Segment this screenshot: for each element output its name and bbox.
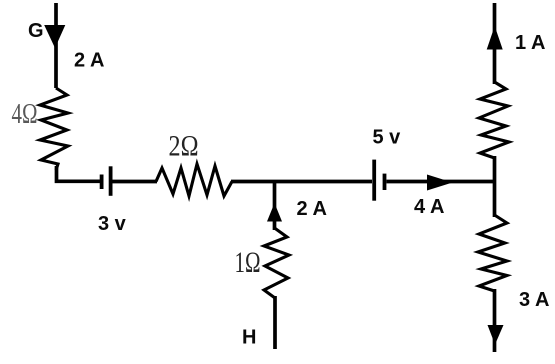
svg-text:2Ω: 2Ω <box>169 130 199 163</box>
svg-text:2 A: 2 A <box>74 50 104 72</box>
wire left corner to battery 3v <box>57 166 102 181</box>
battery 5v short plate <box>383 174 387 190</box>
wire lower resistor to 3A arrow and stub <box>493 289 497 352</box>
wire resistor 2ohm to battery 5v <box>231 180 372 184</box>
svg-text:H: H <box>242 327 256 349</box>
wire G terminal top <box>54 3 58 88</box>
current arrow 2A up (middle branch) <box>267 203 282 222</box>
svg-text:4Ω: 4Ω <box>12 98 38 130</box>
battery 3v tall plate <box>109 166 113 196</box>
current arrow 4A right <box>427 175 453 191</box>
resistor 1ohm <box>264 228 289 298</box>
resistor 4ohm <box>40 88 68 170</box>
svg-text:G: G <box>28 20 44 42</box>
resistor upper right <box>479 82 509 158</box>
resistor 2ohm <box>156 164 232 196</box>
battery 5v tall plate <box>372 160 376 201</box>
wire upper resistor to node <box>493 156 497 217</box>
current arrow 2A down (G branch) <box>44 25 65 48</box>
wire right branch top <box>493 3 497 84</box>
svg-text:5 v: 5 v <box>373 127 402 149</box>
svg-text:4 A: 4 A <box>414 196 444 218</box>
svg-text:1 A: 1 A <box>515 32 545 54</box>
svg-text:2 A: 2 A <box>297 198 327 220</box>
wire H terminal bottom <box>273 296 277 349</box>
svg-text:1Ω: 1Ω <box>235 246 261 279</box>
wire battery 5v to right node <box>387 180 495 184</box>
svg-text:3 v: 3 v <box>98 213 127 235</box>
wire node junction down to resistor 1ohm <box>273 182 277 231</box>
current arrow 1A up (top right) <box>487 26 503 50</box>
svg-text:3 A: 3 A <box>519 289 549 311</box>
battery 3v short plate <box>100 175 104 190</box>
current arrow 3A down (bottom right) <box>488 325 504 345</box>
resistor lower right <box>478 215 507 291</box>
wire battery 3v to resistor 2ohm <box>113 180 158 184</box>
